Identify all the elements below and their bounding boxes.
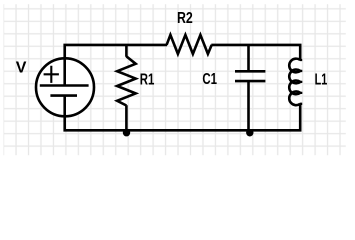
svg-text:V: V xyxy=(16,60,27,77)
wire from top rail down to R1 xyxy=(125,45,128,57)
svg-text:R1: R1 xyxy=(140,72,155,89)
voltage source V body xyxy=(36,58,94,116)
junction node at C1/bottom rail xyxy=(246,129,253,136)
svg-text:R2: R2 xyxy=(177,10,193,27)
resistor R1 zigzag xyxy=(117,56,136,105)
battery long plate inside source xyxy=(40,84,89,87)
resistor R2 zigzag xyxy=(167,35,212,54)
wire top rail from R2 to inductor L1 top lead xyxy=(211,45,300,60)
capacitor C1 top lead xyxy=(247,45,250,71)
wire from R1 down to bottom rail junction xyxy=(125,105,128,130)
battery short plate inside source xyxy=(50,94,77,97)
inductor L1 cusp tips xyxy=(300,60,302,104)
inductor L1 coil xyxy=(289,59,300,106)
wire from source positive terminal up and along top rail to R2 xyxy=(65,45,167,86)
wire bottom rail from source negative terminal to inductor L1 bottom lead xyxy=(65,96,301,130)
plus sign inside source xyxy=(44,66,59,83)
svg-text:L1: L1 xyxy=(315,72,328,89)
capacitor C1 bottom lead xyxy=(247,81,250,130)
junction node at R1/bottom rail xyxy=(123,129,130,136)
svg-text:C1: C1 xyxy=(202,71,217,88)
capacitor C1 plates xyxy=(235,71,265,81)
